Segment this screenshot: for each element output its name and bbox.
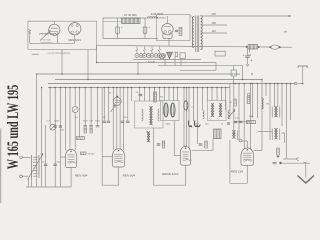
tube V2 REN 904 bbox=[118, 150, 120, 152]
wire mains lead right bbox=[281, 46, 292, 48]
svg-text:Tonabnehmer: Tonabnehmer bbox=[40, 42, 53, 44]
switch box S1 bbox=[180, 53, 185, 59]
enclosure box pickup preamp bbox=[28, 21, 97, 49]
wire bus heater return bbox=[97, 62, 216, 64]
wire AF to speaker transformer bbox=[258, 131, 272, 133]
svg-text:5000: 5000 bbox=[83, 120, 89, 122]
enclosure oscillator coil box bbox=[135, 101, 164, 128]
svg-text:+: + bbox=[243, 53, 245, 57]
IF2 winding B bbox=[219, 104, 220, 117]
rectifier socket base bbox=[163, 34, 172, 39]
svg-text:2A: 2A bbox=[248, 54, 251, 57]
speaker transformer bbox=[274, 129, 275, 139]
wire between fuses bbox=[260, 46, 270, 48]
fuse Si1 bbox=[246, 46, 248, 48]
wire grid tube3 bbox=[174, 121, 176, 156]
wire bus AVC bbox=[48, 83, 296, 85]
resistor diode load bbox=[234, 99, 237, 106]
wire anode rail in box bbox=[28, 20, 54, 22]
rectifier tube RGN bbox=[162, 24, 173, 35]
wire bottom bus left bbox=[26, 186, 71, 188]
capacitor 5000 row a bbox=[83, 126, 87, 127]
arrow wiper of P1 bbox=[40, 31, 51, 41]
svg-text:220: 220 bbox=[212, 12, 217, 16]
choke Dr bbox=[122, 18, 141, 24]
svg-text:+: + bbox=[121, 25, 123, 29]
wire bus grid return bbox=[48, 87, 230, 89]
transformer T1 core bbox=[196, 16, 199, 53]
wire socket bottom bbox=[74, 35, 76, 43]
fuse Si2 bbox=[269, 46, 271, 48]
tuning capacitor C1 bbox=[31, 155, 33, 178]
pot with arrow mid bbox=[72, 107, 78, 113]
mains tap 150V bbox=[201, 24, 227, 26]
wire detector row bbox=[234, 121, 250, 123]
wire verticals IF area bbox=[183, 88, 185, 148]
cap near tube2 top bbox=[139, 94, 143, 95]
resistor volume horizontal bbox=[247, 120, 256, 123]
resistor grid leak tube1 bbox=[81, 152, 87, 155]
field coil winding bbox=[148, 16, 158, 18]
wire socket to box top bbox=[74, 21, 76, 22]
wire pickup to cathode bus bbox=[30, 42, 58, 44]
capacitor 5000 row c bbox=[96, 126, 100, 127]
svg-text:150: 150 bbox=[212, 21, 217, 25]
coupling coil right bbox=[228, 110, 230, 119]
cap pair right of IF2 bbox=[227, 123, 230, 124]
junction dots left bbox=[41, 87, 43, 89]
grid cap tube4 wire bbox=[239, 139, 242, 142]
IF2 secondary block bbox=[214, 129, 222, 139]
arrow into coupling valve bbox=[111, 105, 116, 112]
capacitor block small bbox=[175, 52, 177, 57]
wire mains lead bbox=[97, 45, 246, 47]
svg-text:Dr 30 000: Dr 30 000 bbox=[124, 13, 137, 17]
wire grid tube2 bbox=[102, 156, 112, 158]
winding below osc box bbox=[147, 132, 148, 142]
wire bus screen supply bbox=[55, 79, 262, 81]
capacitor on cathode line a bbox=[44, 164, 48, 165]
oscillator side coil left bbox=[142, 109, 144, 121]
svg-text:W 165 und LW 195: W 165 und LW 195 bbox=[5, 85, 22, 170]
wire mains switch drop bbox=[242, 66, 244, 80]
wire lamp drops bbox=[164, 59, 166, 66]
wire verticals middle group bbox=[101, 88, 103, 186]
interstage transformer bbox=[274, 107, 275, 117]
cap pair detector bbox=[234, 121, 238, 122]
tube V3 RENS 1204 bbox=[185, 147, 187, 149]
grid coil tube3 bbox=[184, 101, 188, 110]
heater bus wire bbox=[133, 58, 201, 60]
capacitor 100 row b bbox=[89, 126, 93, 127]
small parts before output tube bbox=[199, 144, 203, 145]
wire HT rail bottom bbox=[103, 38, 158, 40]
IF1 winding A bbox=[164, 103, 168, 117]
svg-text:1M: 1M bbox=[266, 104, 269, 106]
small parts between tubes bbox=[157, 144, 161, 145]
svg-text:REN 904: REN 904 bbox=[123, 173, 136, 177]
resistor in rectifier box bbox=[179, 28, 182, 36]
terminal antenna input bbox=[20, 156, 23, 159]
wire bottom loop tube3 bbox=[153, 128, 155, 185]
capacitor C22 4uF bbox=[247, 47, 249, 56]
wire speaker branch bbox=[282, 133, 285, 143]
heater feed wires bbox=[136, 46, 138, 53]
svg-text:RENS 1204: RENS 1204 bbox=[162, 172, 179, 176]
capacitor on cathode line b bbox=[53, 164, 57, 165]
electrolytic C20 bbox=[117, 18, 119, 39]
coil AF choke bbox=[262, 98, 263, 109]
resistor anode detector bbox=[247, 96, 250, 104]
output transformer bbox=[232, 131, 233, 139]
electrolytic C21 bbox=[144, 18, 146, 39]
resistor R2 horizontal bbox=[77, 137, 85, 140]
oscillator winding pair bbox=[149, 107, 150, 125]
speaker excitation symbol bbox=[167, 52, 173, 58]
tube V4 RES 164 bbox=[247, 149, 249, 151]
junction dots right bbox=[233, 83, 235, 85]
wire rectifier to transformer bbox=[190, 15, 192, 17]
oscillator side coil right bbox=[158, 109, 160, 121]
wire heater rail stub bbox=[103, 21, 121, 23]
mains tap 220V bbox=[201, 15, 291, 17]
capacitor phones bbox=[273, 163, 277, 164]
resistor output bbox=[277, 148, 280, 155]
wire grid stopper tube4 bbox=[242, 140, 247, 142]
pilot lamp La bbox=[159, 54, 164, 59]
capacitor small mid bbox=[59, 126, 62, 127]
coupling coil left bbox=[203, 110, 205, 119]
svg-text:RES 164: RES 164 bbox=[231, 169, 244, 173]
svg-text:+: + bbox=[149, 25, 151, 29]
svg-text:5000: 5000 bbox=[54, 120, 60, 122]
wire verticals left tuning group bbox=[36, 74, 38, 187]
wire bottom loop tube4 bbox=[229, 140, 231, 183]
junction box mains bbox=[231, 70, 236, 76]
svg-text:RGN 354: RGN 354 bbox=[156, 18, 166, 20]
transformer T1 primary winding bbox=[192, 17, 194, 48]
wire bottom loop tube2 bbox=[118, 167, 120, 185]
wire anode tube3 bbox=[192, 149, 213, 151]
wire box outputs down bbox=[61, 49, 63, 74]
antenna terminal bbox=[298, 66, 308, 68]
wire tube1 cathode down bbox=[70, 168, 72, 187]
wire phone line top bbox=[283, 158, 296, 160]
wire HT rail top bbox=[103, 17, 158, 19]
wire tuning cap to bottom bus bbox=[31, 178, 33, 187]
svg-text:110: 110 bbox=[212, 29, 217, 33]
pickup TA bbox=[29, 30, 31, 35]
terminal earth input bbox=[20, 175, 23, 178]
wire anode tube4 bbox=[254, 150, 262, 152]
cap pair under osc bbox=[121, 121, 125, 122]
enclosure rectifier box bbox=[157, 15, 191, 41]
svg-text:nur für Wechselstrom: nur für Wechselstrom bbox=[48, 52, 71, 55]
wire verticals right group bbox=[229, 84, 231, 120]
wire bus lamp return bbox=[158, 65, 243, 67]
capacitor 5000 left bbox=[54, 126, 57, 127]
enclosure IF transformer 2 bbox=[208, 101, 227, 121]
voltage selector box bbox=[215, 51, 225, 56]
svg-text:50 000: 50 000 bbox=[88, 153, 95, 155]
wire phone line bottom bbox=[282, 162, 311, 164]
svg-text:5000: 5000 bbox=[95, 120, 101, 122]
variable arrow IF2 bbox=[228, 110, 235, 119]
IF2 winding A bbox=[211, 104, 212, 117]
cap pair left of osc bbox=[103, 121, 107, 122]
chassis ground arrow bbox=[298, 176, 315, 184]
junction dots IF bbox=[183, 87, 185, 89]
wire V0 cathode down bbox=[57, 35, 59, 43]
transformer T1 secondary winding bbox=[201, 16, 203, 50]
IF1 winding B bbox=[171, 103, 175, 117]
handwritten marks bbox=[189, 121, 193, 127]
screen resistor mid bbox=[154, 92, 157, 102]
volume control coil P1 bbox=[32, 53, 39, 55]
junction dots middle bbox=[104, 87, 106, 89]
electron coupling valve symbol bbox=[113, 97, 121, 105]
wire bus aux bbox=[180, 69, 216, 71]
wire rectifier cathode down bbox=[168, 38, 170, 46]
triode V0 bbox=[49, 24, 60, 35]
svg-text:REN 904: REN 904 bbox=[75, 174, 88, 178]
wire to chassis ground bbox=[305, 163, 307, 177]
fuse branch wire bbox=[249, 47, 251, 53]
heater socket pairs bbox=[135, 54, 139, 58]
tube socket top view REN 1821 bbox=[69, 23, 81, 35]
enclosure IF transformer 1 bbox=[161, 101, 180, 121]
trimmer capacitor bbox=[50, 124, 56, 130]
junction dots on supply buses bbox=[61, 73, 63, 75]
mains tap 110V bbox=[201, 32, 227, 34]
tube V1 REN 904 bbox=[70, 150, 72, 152]
wire bus anode supply bbox=[37, 73, 240, 75]
